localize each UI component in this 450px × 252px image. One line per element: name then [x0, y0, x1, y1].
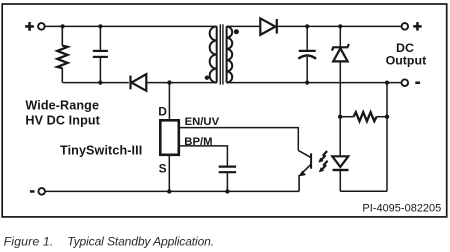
- output - terminal: [402, 79, 409, 86]
- wire: secondary top to rectifier: [227, 25, 261, 27]
- diode D clamp (pointing left, cathode bar at left): [131, 74, 217, 91]
- LED of optocoupler (pointing down): [332, 117, 348, 192]
- svg-text:Wide-Range: Wide-Range: [25, 99, 99, 113]
- input - terminal: [38, 188, 45, 195]
- secondary phase dot: [234, 29, 239, 34]
- diode D rectifier (pointing right): [260, 18, 277, 35]
- wire: BP/M pin to bypass capacitor: [180, 146, 227, 166]
- capacitor C bypass: [219, 167, 236, 192]
- transformer T1 primary winding: [210, 26, 217, 82]
- svg-text:D: D: [158, 105, 167, 119]
- input + sign: [25, 22, 34, 31]
- node: + rail / output cap: [305, 24, 309, 28]
- output + sign: [413, 22, 422, 31]
- light arrow 2: [319, 161, 327, 172]
- node: source / bottom rail: [167, 189, 171, 193]
- resistor R feedback (horizontal): [340, 112, 387, 121]
- svg-text:PI-4095-082205: PI-4095-082205: [362, 202, 441, 214]
- node: top rail / clamp cap: [98, 24, 102, 28]
- output - sign: [415, 82, 420, 85]
- input - sign: [30, 190, 35, 193]
- IC U1 TinySwitch-III body: [160, 120, 179, 155]
- node D junction: [167, 80, 171, 84]
- node: bypass cap / bottom rail: [225, 189, 229, 193]
- output + terminal: [402, 23, 409, 30]
- capacitor C output (polarized): [298, 26, 316, 82]
- wire: top rail from + terminal to transformer primary: [45, 25, 217, 27]
- wire: source pin down to bottom rail: [168, 156, 170, 192]
- wire: clamp bottom horizontal: [63, 82, 129, 84]
- wire: LED loop bottom: [340, 190, 387, 192]
- wire: right vertical from - rail down to LED loop: [386, 83, 388, 192]
- svg-text:Output: Output: [386, 54, 427, 68]
- node: - rail / right vertical: [385, 81, 389, 85]
- node: feedback resistor left: [338, 115, 342, 119]
- capacitor C clamp: [93, 26, 108, 82]
- svg-text:BP/M: BP/M: [184, 136, 212, 148]
- zener diode VR (cathode up): [332, 26, 349, 116]
- node D: wire from clamp/diode junction down to IC drain: [168, 83, 170, 120]
- light arrow 1: [319, 151, 327, 162]
- svg-text:Figure 1.: Figure 1.: [4, 235, 54, 249]
- node: + rail / zener: [338, 24, 342, 28]
- primary phase dot: [205, 76, 209, 80]
- wire: top output rail to + output terminal: [277, 25, 402, 27]
- node: clamp bottom / cap: [98, 81, 102, 85]
- node: - rail / output cap: [305, 81, 309, 85]
- emitter arrowhead: [300, 171, 306, 176]
- svg-text:S: S: [159, 161, 167, 175]
- wire: EN/UV pin to optocoupler collector: [180, 128, 298, 151]
- node: feedback resistor right: [385, 115, 389, 119]
- svg-text:Typical Standby Application.: Typical Standby Application.: [67, 234, 214, 248]
- resistor R clamp (vertical): [57, 26, 67, 82]
- wire: bottom rail from - terminal to optocoupler emitter: [45, 190, 299, 192]
- svg-text:EN/UV: EN/UV: [185, 116, 220, 128]
- optocoupler phototransistor: [298, 150, 311, 191]
- svg-text:TinySwitch-III: TinySwitch-III: [60, 143, 142, 157]
- wire: - output rail: [227, 82, 402, 84]
- input + terminal: [38, 23, 45, 30]
- node: top rail / clamp resistor: [61, 24, 65, 28]
- transformer T1 secondary winding: [227, 26, 233, 82]
- svg-text:HV DC Input: HV DC Input: [25, 114, 100, 128]
- transformer core: [220, 24, 223, 84]
